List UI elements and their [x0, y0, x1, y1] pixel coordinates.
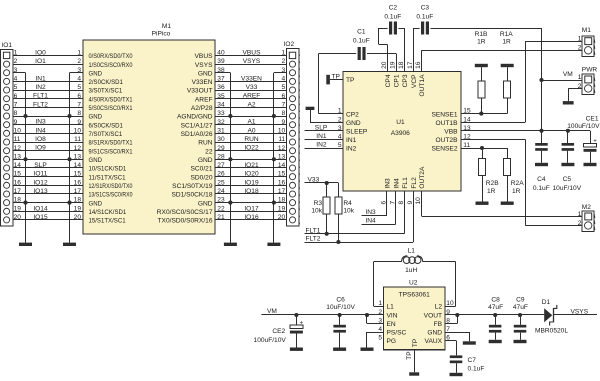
svg-text:D1: D1 [542, 299, 551, 306]
svg-text:OUT2A: OUT2A [419, 166, 426, 189]
svg-text:C9: C9 [516, 296, 525, 303]
svg-text:GND: GND [198, 157, 213, 164]
svg-text:6: 6 [14, 93, 18, 100]
svg-text:PG: PG [387, 338, 397, 345]
svg-text:IN1: IN1 [35, 75, 46, 82]
svg-text:GND: GND [346, 120, 361, 127]
svg-text:8: 8 [398, 201, 405, 205]
svg-text:IO0: IO0 [35, 49, 46, 56]
svg-text:IO8: IO8 [35, 136, 46, 143]
svg-text:AREF: AREF [243, 93, 261, 100]
svg-text:16: 16 [74, 179, 82, 186]
svg-text:IO20: IO20 [244, 171, 259, 178]
svg-text:3: 3 [282, 67, 286, 74]
svg-text:2: 2 [578, 220, 582, 227]
svg-text:5: 5 [14, 84, 18, 91]
svg-text:M1: M1 [162, 23, 171, 30]
svg-text:IN3: IN3 [365, 209, 376, 216]
svg-text:C4: C4 [537, 176, 546, 183]
svg-text:28: 28 [217, 153, 225, 160]
svg-text:18: 18 [278, 197, 286, 204]
svg-text:M1: M1 [582, 27, 591, 34]
svg-text:CP3: CP3 [402, 74, 409, 87]
svg-text:VAUX: VAUX [425, 338, 443, 345]
svg-text:RUN: RUN [198, 140, 213, 147]
svg-text:IO18: IO18 [244, 188, 259, 195]
svg-text:47uF: 47uF [488, 304, 503, 311]
svg-text:2: 2 [282, 58, 286, 65]
svg-text:1R: 1R [477, 39, 486, 46]
svg-text:R1A: R1A [500, 31, 513, 38]
svg-text:20: 20 [278, 214, 286, 221]
svg-text:CE1: CE1 [586, 115, 599, 122]
svg-text:2/S0CK/SD1: 2/S0CK/SD1 [89, 79, 124, 86]
svg-text:C8: C8 [491, 296, 500, 303]
svg-text:9: 9 [407, 201, 414, 205]
svg-text:0.1uF: 0.1uF [468, 366, 485, 373]
svg-text:1: 1 [578, 74, 582, 81]
svg-text:5: 5 [282, 84, 286, 91]
svg-text:SLP: SLP [34, 162, 47, 169]
svg-text:19: 19 [74, 205, 82, 212]
svg-text:IN4: IN4 [365, 218, 376, 225]
svg-text:7: 7 [282, 102, 286, 109]
svg-text:1: 1 [77, 50, 81, 57]
svg-text:4: 4 [77, 76, 81, 83]
svg-text:IO1: IO1 [1, 42, 12, 49]
svg-text:TP: TP [346, 77, 355, 84]
svg-text:L1: L1 [408, 248, 416, 255]
svg-text:7/S0TX/SC1: 7/S0TX/SC1 [89, 131, 123, 138]
svg-text:U1: U1 [396, 119, 405, 126]
svg-text:14/S1CK/SD1: 14/S1CK/SD1 [89, 209, 127, 216]
svg-text:V33: V33 [246, 84, 258, 91]
svg-text:11: 11 [278, 136, 285, 143]
svg-text:C5: C5 [563, 176, 572, 183]
svg-text:24: 24 [217, 188, 225, 195]
svg-text:25: 25 [217, 179, 225, 186]
svg-text:VSYS: VSYS [243, 58, 261, 65]
svg-text:TP: TP [406, 351, 413, 360]
svg-text:1: 1 [282, 50, 286, 57]
svg-text:17: 17 [74, 188, 82, 195]
svg-text:SD1/A0/26: SD1/A0/26 [181, 131, 213, 138]
svg-text:10k: 10k [343, 208, 354, 215]
svg-text:V33OUT: V33OUT [187, 88, 213, 95]
svg-text:SENSE2: SENSE2 [431, 146, 457, 153]
svg-text:A2: A2 [247, 101, 255, 108]
svg-text:1: 1 [578, 36, 582, 43]
svg-text:7: 7 [14, 102, 18, 109]
svg-text:9: 9 [282, 119, 286, 126]
svg-text:IN2: IN2 [316, 142, 327, 149]
svg-text:IO1: IO1 [35, 58, 46, 65]
svg-text:VBUS: VBUS [195, 53, 214, 60]
svg-text:37: 37 [217, 76, 225, 83]
svg-text:9: 9 [77, 119, 81, 126]
svg-text:4: 4 [14, 76, 18, 83]
svg-text:IO11: IO11 [34, 171, 48, 178]
svg-text:13: 13 [278, 153, 286, 160]
svg-text:5: 5 [77, 84, 81, 91]
svg-text:FLT1: FLT1 [33, 93, 48, 100]
svg-text:FLT2: FLT2 [33, 101, 48, 108]
svg-text:10/S1CK/SD1: 10/S1CK/SD1 [89, 166, 127, 173]
svg-text:100uF/10V: 100uF/10V [567, 123, 600, 130]
svg-text:R4: R4 [343, 200, 352, 207]
svg-text:3/S0TX/SC1: 3/S0TX/SC1 [89, 88, 123, 95]
svg-text:IO14: IO14 [33, 205, 48, 212]
svg-text:IO9: IO9 [35, 145, 46, 152]
svg-text:32: 32 [217, 119, 225, 126]
svg-text:8/S1RX/SD0/TX1: 8/S1RX/SD0/TX1 [89, 140, 133, 147]
svg-text:A2/P28: A2/P28 [191, 105, 213, 112]
svg-text:GND: GND [89, 200, 103, 207]
svg-text:PiPico: PiPico [152, 31, 171, 38]
svg-text:0.1uF: 0.1uF [353, 38, 370, 45]
svg-text:CP1: CP1 [394, 74, 401, 87]
svg-text:29: 29 [217, 145, 225, 152]
svg-text:CE2: CE2 [272, 328, 285, 335]
svg-text:14: 14 [278, 162, 286, 169]
svg-text:33: 33 [217, 110, 225, 117]
svg-text:1: 1 [14, 50, 18, 57]
svg-text:R3: R3 [314, 200, 323, 207]
svg-text:23: 23 [217, 197, 225, 204]
svg-text:39: 39 [217, 58, 225, 65]
svg-text:15: 15 [14, 171, 22, 178]
svg-text:CP2: CP2 [346, 111, 359, 118]
svg-text:22: 22 [205, 148, 213, 155]
svg-text:11/S1TX/SC1: 11/S1TX/SC1 [89, 174, 126, 181]
svg-text:SC1/S0TX/19: SC1/S0TX/19 [172, 183, 213, 190]
svg-text:A3906: A3906 [391, 130, 410, 137]
svg-text:1R: 1R [487, 188, 496, 195]
svg-text:FLT1: FLT1 [306, 227, 321, 234]
svg-text:R1B: R1B [475, 31, 488, 38]
svg-text:C7: C7 [468, 357, 477, 364]
svg-text:10uF/10V: 10uF/10V [326, 304, 355, 311]
svg-text:1R: 1R [512, 188, 521, 195]
svg-text:TPS63061: TPS63061 [399, 292, 430, 299]
svg-text:2: 2 [14, 58, 18, 65]
svg-text:VCP: VCP [411, 74, 418, 88]
svg-text:L1: L1 [387, 304, 395, 311]
svg-text:9: 9 [446, 309, 450, 316]
svg-text:0/S0RX/SD0/TX0: 0/S0RX/SD0/TX0 [89, 53, 133, 60]
svg-text:0.1uF: 0.1uF [533, 185, 550, 192]
svg-text:VM: VM [563, 71, 573, 78]
svg-text:10: 10 [14, 127, 22, 134]
svg-text:14: 14 [74, 162, 82, 169]
svg-text:IN1: IN1 [316, 133, 327, 140]
svg-text:IN3: IN3 [35, 119, 46, 126]
svg-text:IN3: IN3 [385, 178, 392, 189]
svg-text:OUT1B: OUT1B [436, 120, 459, 127]
svg-text:VM: VM [267, 308, 277, 315]
svg-text:100uF/10V: 100uF/10V [254, 337, 287, 344]
svg-text:2: 2 [578, 45, 582, 52]
svg-text:SD1/S0CK/18: SD1/S0CK/18 [171, 192, 212, 199]
svg-text:A0: A0 [247, 127, 255, 134]
svg-text:3: 3 [77, 67, 81, 74]
svg-text:L2: L2 [435, 304, 443, 311]
svg-text:OUT2B: OUT2B [436, 137, 459, 144]
svg-text:SENSE1: SENSE1 [431, 111, 457, 118]
svg-text:10k: 10k [311, 208, 322, 215]
svg-text:5: 5 [378, 335, 382, 342]
svg-text:8: 8 [77, 110, 81, 117]
svg-text:R2B: R2B [486, 180, 499, 187]
svg-text:6: 6 [282, 93, 286, 100]
svg-text:GND: GND [89, 114, 103, 121]
svg-text:10: 10 [74, 127, 82, 134]
svg-text:VBB: VBB [444, 129, 458, 136]
svg-text:7: 7 [77, 102, 81, 109]
svg-text:C2: C2 [389, 4, 398, 11]
svg-text:18: 18 [14, 197, 22, 204]
svg-text:15/S1TX/SC1: 15/S1TX/SC1 [89, 218, 126, 225]
svg-text:4: 4 [282, 76, 286, 83]
svg-text:36: 36 [217, 84, 225, 91]
svg-text:C1: C1 [357, 28, 366, 35]
svg-text:1uH: 1uH [405, 267, 417, 274]
svg-text:SC0/21: SC0/21 [191, 166, 213, 173]
svg-text:11: 11 [74, 136, 81, 143]
svg-text:26: 26 [217, 171, 225, 178]
svg-text:SLP: SLP [315, 125, 328, 132]
svg-text:22: 22 [217, 205, 225, 212]
svg-text:0.1uF: 0.1uF [384, 14, 401, 21]
svg-text:2: 2 [378, 309, 382, 316]
svg-text:9/S1CS/SC0/RX1: 9/S1CS/SC0/RX1 [89, 148, 133, 155]
svg-text:10: 10 [278, 127, 286, 134]
svg-text:V33: V33 [308, 176, 320, 183]
svg-text:EN: EN [387, 321, 396, 328]
svg-text:IN2: IN2 [346, 146, 357, 153]
svg-text:SD0/20: SD0/20 [191, 174, 213, 181]
svg-text:13: 13 [74, 153, 82, 160]
svg-text:GND: GND [198, 200, 213, 207]
svg-text:40: 40 [217, 50, 225, 57]
svg-text:17: 17 [14, 188, 22, 195]
svg-text:AGND/GND: AGND/GND [177, 114, 213, 121]
svg-text:IO22: IO22 [244, 145, 259, 152]
svg-text:12/S1RX/SD0/TX0: 12/S1RX/SD0/TX0 [89, 183, 133, 190]
svg-text:12: 12 [74, 145, 82, 152]
svg-text:IN4: IN4 [35, 127, 46, 134]
svg-text:0.1uF: 0.1uF [416, 14, 433, 21]
svg-text:8: 8 [14, 110, 18, 117]
svg-text:15: 15 [278, 171, 286, 178]
svg-text:IO15: IO15 [33, 214, 48, 221]
svg-text:18: 18 [74, 197, 82, 204]
svg-text:31: 31 [217, 127, 225, 134]
svg-text:2: 2 [77, 58, 81, 65]
svg-text:20: 20 [14, 214, 22, 221]
svg-text:VSYS: VSYS [195, 62, 213, 69]
svg-text:1/S0CS/SC0/RX0: 1/S0CS/SC0/RX0 [89, 62, 133, 69]
svg-text:CP4: CP4 [385, 74, 392, 87]
svg-text:IO19: IO19 [244, 179, 259, 186]
svg-text:19: 19 [390, 61, 397, 69]
svg-text:C3: C3 [421, 4, 430, 11]
svg-text:19: 19 [14, 205, 22, 212]
svg-text:C6: C6 [336, 296, 345, 303]
svg-text:30: 30 [217, 136, 225, 143]
svg-text:11: 11 [14, 136, 21, 143]
svg-text:IO17: IO17 [244, 205, 259, 212]
svg-text:M2: M2 [582, 204, 591, 211]
svg-text:SC1/A1/27: SC1/A1/27 [181, 122, 213, 129]
svg-text:A1: A1 [247, 119, 255, 126]
svg-text:U2: U2 [409, 279, 418, 286]
svg-text:10uF/10V: 10uF/10V [553, 185, 582, 192]
svg-text:SLEEP: SLEEP [346, 129, 368, 136]
svg-text:21: 21 [217, 214, 225, 221]
svg-text:6/S0CK/SD1: 6/S0CK/SD1 [89, 122, 124, 129]
svg-text:16: 16 [14, 179, 22, 186]
svg-text:GND: GND [198, 70, 213, 77]
svg-text:IO13: IO13 [33, 188, 48, 195]
svg-text:47uF: 47uF [513, 304, 528, 311]
svg-text:+: + [300, 320, 304, 326]
svg-text:V33EN: V33EN [192, 79, 213, 86]
svg-text:34: 34 [217, 102, 225, 109]
svg-text:GND: GND [427, 330, 442, 337]
svg-text:FLT2: FLT2 [306, 236, 321, 243]
svg-text:IN2: IN2 [35, 84, 46, 91]
svg-text:AREF: AREF [195, 96, 213, 103]
svg-text:13: 13 [14, 153, 22, 160]
svg-text:VOUT: VOUT [424, 313, 442, 320]
svg-text:12: 12 [14, 145, 22, 152]
svg-text:19: 19 [278, 205, 286, 212]
svg-text:PWR: PWR [582, 66, 598, 73]
svg-text:38: 38 [217, 67, 225, 74]
svg-text:VSYS: VSYS [571, 308, 589, 315]
svg-text:3: 3 [14, 67, 18, 74]
svg-text:TP: TP [332, 73, 341, 80]
svg-text:RUN: RUN [244, 136, 259, 143]
svg-text:GND: GND [89, 157, 103, 164]
svg-text:GND: GND [89, 70, 103, 77]
svg-text:9: 9 [14, 119, 18, 126]
svg-text:FB: FB [434, 321, 443, 328]
svg-text:+: + [593, 139, 597, 145]
svg-text:IO21: IO21 [244, 162, 259, 169]
svg-text:TX0/SD0/S0RX/16: TX0/SD0/S0RX/16 [158, 218, 213, 225]
svg-text:RX0/SC0/S0CS/17: RX0/SC0/S0CS/17 [157, 209, 213, 216]
svg-text:IN1: IN1 [346, 137, 357, 144]
svg-text:1R: 1R [502, 39, 511, 46]
svg-text:14: 14 [14, 162, 22, 169]
svg-text:PS/SC: PS/SC [387, 330, 407, 337]
svg-text:27: 27 [217, 162, 225, 169]
svg-text:16: 16 [278, 179, 286, 186]
svg-text:5/S0CS/SC0/RX1: 5/S0CS/SC0/RX1 [89, 105, 133, 112]
svg-text:17: 17 [278, 188, 286, 195]
svg-text:6: 6 [77, 93, 81, 100]
svg-text:TP: TP [412, 338, 419, 347]
svg-text:12: 12 [278, 145, 286, 152]
svg-text:VIN: VIN [387, 313, 398, 320]
svg-text:IN4: IN4 [393, 178, 400, 189]
svg-text:VBUS: VBUS [243, 49, 262, 56]
svg-text:R2A: R2A [511, 180, 524, 187]
svg-text:V33EN: V33EN [241, 75, 262, 82]
svg-text:15: 15 [74, 171, 82, 178]
svg-text:OUT1A: OUT1A [419, 74, 426, 97]
svg-text:8: 8 [282, 110, 286, 117]
svg-text:FL2: FL2 [411, 177, 418, 189]
svg-text:FL1: FL1 [402, 177, 409, 189]
svg-text:20: 20 [74, 214, 82, 221]
svg-text:IO12: IO12 [33, 179, 48, 186]
svg-text:IO16: IO16 [244, 214, 259, 221]
svg-text:13/S1CS/SC0/RX0: 13/S1CS/SC0/RX0 [89, 192, 133, 199]
svg-text:IO2: IO2 [284, 41, 295, 48]
svg-text:4/S0RX/SD0/TX1: 4/S0RX/SD0/TX1 [89, 96, 133, 103]
svg-text:MBR0520L: MBR0520L [535, 328, 568, 335]
svg-text:35: 35 [217, 93, 225, 100]
